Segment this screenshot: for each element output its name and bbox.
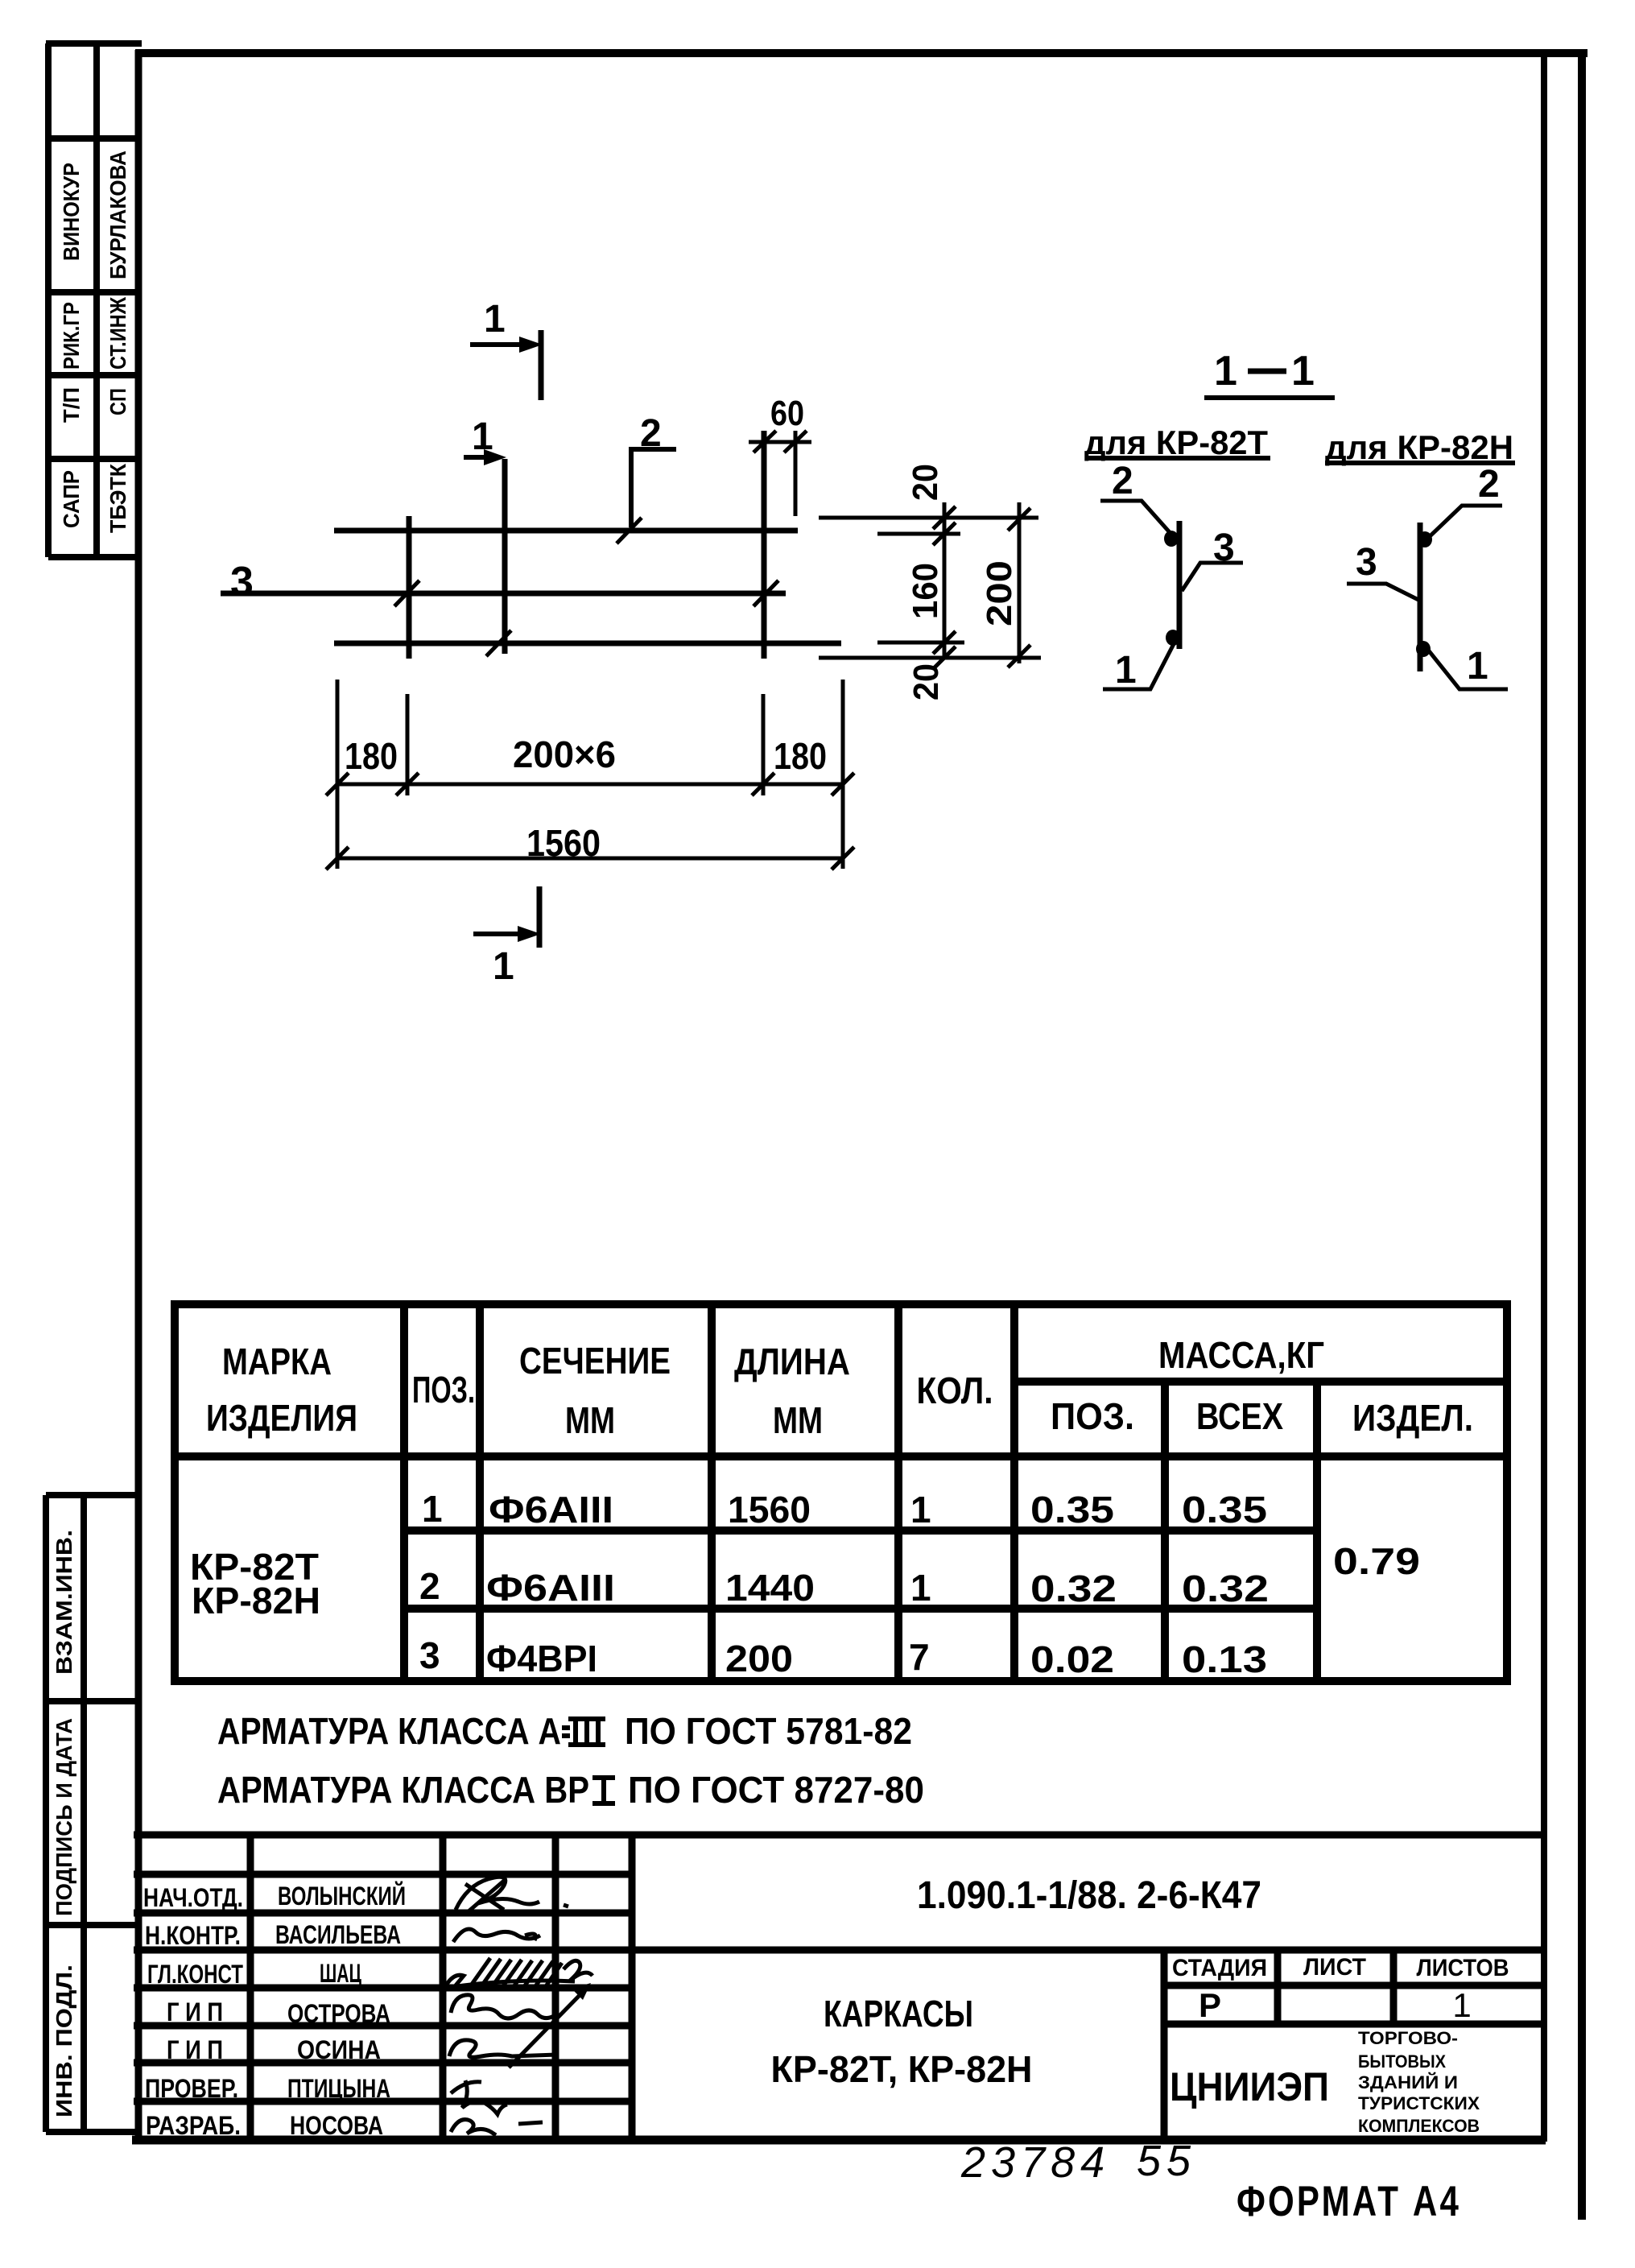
- svg-text:ОСИНА: ОСИНА: [297, 2035, 381, 2064]
- svg-text:0.79: 0.79: [1333, 1540, 1420, 1582]
- svg-text:55: 55: [1137, 2137, 1196, 2185]
- svg-text:Ф6АIII: Ф6АIII: [489, 1489, 613, 1531]
- svg-text:0.13: 0.13: [1182, 1638, 1267, 1680]
- svg-text:ПОЗ.: ПОЗ.: [412, 1369, 475, 1411]
- svg-text:20: 20: [906, 663, 946, 700]
- massa subheader line: [1014, 1378, 1507, 1386]
- signature ostrova: [451, 1995, 554, 2018]
- bar 1 (bottom longitudinal): [334, 641, 841, 647]
- svg-text:2: 2: [1478, 463, 1500, 506]
- svg-text:ММ: ММ: [565, 1399, 615, 1441]
- svg-text:ТУРИСТСКИХ: ТУРИСТСКИХ: [1358, 2093, 1480, 2113]
- svg-text:1440: 1440: [725, 1567, 815, 1609]
- title block col 2: [440, 1835, 447, 2140]
- section KP-82H: [1347, 463, 1508, 689]
- svg-text:1: 1: [493, 945, 514, 988]
- svg-text:1.090.1-1/88. 2-6-К47: 1.090.1-1/88. 2-6-К47: [917, 1874, 1261, 1917]
- svg-text:1: 1: [1452, 1986, 1471, 2024]
- svg-text:для КР-82Т: для КР-82Т: [1084, 423, 1268, 461]
- svg-text:ЛИСТОВ: ЛИСТОВ: [1417, 1955, 1509, 1981]
- col line VSEH/IZDEL: [1313, 1382, 1321, 1681]
- svg-text:ЦНИИЭП: ЦНИИЭП: [1170, 2064, 1329, 2109]
- svg-text:ПОЗ.: ПОЗ.: [1051, 1395, 1134, 1437]
- svg-text:1: 1: [484, 298, 506, 341]
- svg-text:0.35: 0.35: [1030, 1489, 1114, 1531]
- cross mark on bar 1: [486, 630, 511, 656]
- svg-text:ФОРМАТ А4: ФОРМАТ А4: [1237, 2178, 1461, 2225]
- bottom dimension chain: [337, 680, 843, 869]
- svg-text:МАССА,КГ: МАССА,КГ: [1158, 1334, 1324, 1376]
- bar 2 dot: [1418, 531, 1432, 547]
- svg-text:200×6: 200×6: [513, 733, 616, 775]
- signature volynskiy: [456, 1877, 568, 1911]
- svg-text:7: 7: [909, 1636, 930, 1678]
- roman III symbol: [562, 1719, 605, 1745]
- svg-text:АРМАТУРА КЛАССА ВР: АРМАТУРА КЛАССА ВР: [217, 1769, 589, 1811]
- signature shac: [446, 1960, 592, 1988]
- svg-text:180: 180: [345, 735, 398, 777]
- svg-text:1: 1: [910, 1567, 931, 1609]
- title block row line a: [134, 1871, 632, 1878]
- svg-text:23784: 23784: [960, 2138, 1110, 2187]
- svg-text:180: 180: [774, 735, 827, 777]
- section mark 1 bottom: [473, 886, 541, 988]
- svg-text:1: 1: [1467, 645, 1488, 688]
- stadia col a: [1274, 1950, 1282, 2024]
- svg-text:0.32: 0.32: [1182, 1568, 1269, 1609]
- svg-text:КАРКАСЫ: КАРКАСЫ: [824, 1993, 973, 2035]
- section mark 1 (cut through cage): [464, 415, 506, 465]
- svg-text:АРМАТУРА КЛАССА А: АРМАТУРА КЛАССА А: [217, 1710, 561, 1752]
- stadia row line: [1164, 1982, 1544, 1989]
- svg-text:ВАСИЛЬЕВА: ВАСИЛЬЕВА: [275, 1920, 401, 1949]
- row line 2: [404, 1605, 1317, 1613]
- title block row line g: [134, 2098, 632, 2105]
- svg-text:СТ.ИНЖ: СТ.ИНЖ: [105, 296, 130, 370]
- signatures: [446, 1877, 592, 2135]
- title block row line d: [134, 1985, 632, 1992]
- svg-text:ТБЭТК: ТБЭТК: [105, 463, 130, 533]
- note line 1: АРМАТУРА КЛАССА А-III ПО ГОСТ 5781-82: [217, 1710, 561, 1752]
- svg-text:160: 160: [906, 563, 945, 619]
- svg-text:Г И П: Г И П: [167, 1997, 223, 2026]
- svg-text:0.02: 0.02: [1030, 1638, 1114, 1680]
- cross mark on bar 3 leader left: [394, 580, 419, 606]
- signature shac hatch: [471, 1958, 562, 1989]
- dim ticks right chain: [933, 506, 956, 529]
- section title 1 - 1: [1204, 348, 1335, 398]
- cross mark on bar 2: [617, 518, 642, 543]
- svg-text:РИК.ГР: РИК.ГР: [59, 302, 84, 370]
- svg-text:ДЛИНА: ДЛИНА: [734, 1341, 850, 1382]
- svg-text:ПРОВЕР.: ПРОВЕР.: [145, 2074, 238, 2103]
- col line KOL/MASSA: [1010, 1304, 1018, 1681]
- svg-text:МАРКА: МАРКА: [222, 1341, 332, 1382]
- svg-text:ТОРГОВО-: ТОРГОВО-: [1358, 2028, 1458, 2048]
- bar 3 leader line (middle): [221, 591, 786, 597]
- section KP-82T: [1100, 460, 1243, 692]
- svg-text:ПО ГОСТ 5781-82: ПО ГОСТ 5781-82: [625, 1710, 912, 1752]
- svg-text:1: 1: [1115, 649, 1137, 692]
- svg-text:1: 1: [910, 1489, 931, 1531]
- frame top border: [135, 49, 1588, 57]
- frame bottom border (title block bottom): [132, 2136, 1546, 2145]
- svg-text:ЗДАНИЙ И: ЗДАНИЙ И: [1358, 2072, 1458, 2092]
- svg-text:ИНВ. ПОДЛ.: ИНВ. ПОДЛ.: [52, 1964, 76, 2117]
- svg-text:1: 1: [1291, 348, 1315, 395]
- cross mark on bar 3 leader right: [754, 580, 778, 606]
- svg-text:ММ: ММ: [773, 1399, 823, 1441]
- svg-text:3: 3: [1356, 541, 1377, 584]
- outer dim line 200: [1018, 502, 1022, 663]
- svg-text:1560: 1560: [526, 822, 601, 864]
- transverse bar mid / section line: [502, 459, 508, 654]
- svg-text:Ф4ВРI: Ф4ВРI: [486, 1638, 597, 1679]
- svg-text:СЕЧЕНИЕ: СЕЧЕНИЕ: [519, 1340, 671, 1382]
- svg-text:КР-82Т, КР-82Н: КР-82Т, КР-82Н: [771, 2048, 1033, 2090]
- svg-text:1: 1: [422, 1488, 443, 1530]
- svg-text:Т/П: Т/П: [59, 387, 84, 423]
- svg-text:60: 60: [770, 394, 804, 433]
- arrow through shac row: [509, 1987, 588, 2068]
- col line SECHENIE/DLINA: [708, 1304, 716, 1681]
- signature pticyna: [451, 2080, 507, 2114]
- svg-text:СП: СП: [105, 388, 130, 415]
- svg-text:САПР: САПР: [59, 470, 84, 528]
- row line 1: [404, 1526, 1317, 1535]
- stadia bottom line: [1164, 2021, 1544, 2028]
- label для КР-82Т: [1084, 423, 1270, 461]
- svg-text:НАЧ.ОТД.: НАЧ.ОТД.: [143, 1883, 243, 1912]
- svg-text:ШАЦ: ШАЦ: [320, 1959, 361, 1988]
- svg-text:3: 3: [230, 559, 254, 605]
- col line POZ/VSEH: [1161, 1382, 1169, 1681]
- col line POZ/SECHENIE: [476, 1304, 484, 1681]
- table outer border: [175, 1304, 1507, 1681]
- svg-text:Г И П: Г И П: [167, 2035, 223, 2064]
- note line 2: АРМАТУРА КЛАССА ВР-I ПО ГОСТ 8727-80: [217, 1769, 589, 1811]
- transverse bar right: [762, 431, 767, 659]
- frame right outer border: [1578, 50, 1586, 2220]
- svg-text:ПТИЦЫНА: ПТИЦЫНА: [287, 2074, 390, 2103]
- svg-text:ГЛ.КОНСТ: ГЛ.КОНСТ: [147, 1960, 243, 1989]
- svg-text:0.32: 0.32: [1030, 1568, 1117, 1609]
- svg-text:Н.КОНТР.: Н.КОНТР.: [145, 1921, 241, 1950]
- svg-text:КОМПЛЕКСОВ: КОМПЛЕКСОВ: [1358, 2116, 1480, 2136]
- title block row line b: [134, 1910, 632, 1917]
- title block row line f: [134, 2059, 632, 2067]
- svg-text:Ф6АIII: Ф6АIII: [486, 1567, 615, 1609]
- title block col 3: [552, 1835, 559, 2140]
- frame left border: [135, 50, 142, 2142]
- bottom-left stamp grid: [46, 1495, 137, 2132]
- svg-text:200: 200: [980, 560, 1019, 626]
- svg-text:1560: 1560: [728, 1489, 811, 1531]
- svg-text:ВОЛЫНСКИЙ: ВОЛЫНСКИЙ: [278, 1882, 406, 1911]
- svg-text:Р: Р: [1199, 1986, 1221, 2024]
- svg-text:ПО ГОСТ 8727-80: ПО ГОСТ 8727-80: [628, 1769, 924, 1811]
- bar 1 dot: [1416, 641, 1431, 657]
- dimension 60: [749, 394, 811, 516]
- transverse bar (vertical): [1177, 521, 1183, 649]
- svg-text:для КР-82Н: для КР-82Н: [1325, 428, 1513, 466]
- svg-text:ОСТРОВА: ОСТРОВА: [287, 1999, 390, 2028]
- signature osina: [449, 2040, 557, 2057]
- title block col 1: [247, 1835, 254, 2140]
- col line DLINA/KOL: [894, 1304, 902, 1681]
- signature vasileva: [453, 1929, 540, 1942]
- svg-text:200: 200: [725, 1638, 793, 1679]
- roman I symbol: [592, 1778, 615, 1803]
- title block row line e: [134, 2022, 632, 2030]
- label 2 leader: [631, 412, 676, 527]
- svg-text:РАЗРАБ.: РАЗРАБ.: [146, 2111, 241, 2140]
- svg-text:ЛИСТ: ЛИСТ: [1303, 1954, 1366, 1981]
- svg-text:2: 2: [1112, 460, 1133, 502]
- svg-text:ВЗАМ.ИНВ.: ВЗАМ.ИНВ.: [52, 1530, 76, 1675]
- svg-text:ИЗДЕЛИЯ: ИЗДЕЛИЯ: [206, 1397, 357, 1439]
- transverse bar left: [407, 516, 412, 659]
- svg-text:СТАДИЯ: СТАДИЯ: [1172, 1955, 1267, 1981]
- frame right inner border: [1541, 55, 1547, 2142]
- svg-text:КОЛ.: КОЛ.: [917, 1369, 993, 1411]
- bar 2 (top longitudinal): [334, 528, 798, 534]
- label для КР-82Н: [1325, 428, 1515, 466]
- svg-text:2: 2: [419, 1565, 440, 1607]
- title block top: [134, 1832, 1544, 1839]
- dim line 1560: [337, 857, 843, 861]
- section mark 1 top: [470, 298, 543, 400]
- top-left stamp grid: [46, 43, 142, 557]
- header bottom line: [175, 1452, 1507, 1460]
- bar 2 dot: [1164, 531, 1179, 547]
- col line MARKA/POZ: [400, 1304, 408, 1681]
- transverse bar (vertical): [1418, 523, 1423, 671]
- inner dim line 20/160/20: [943, 502, 947, 658]
- svg-text:БУРЛАКОВА: БУРЛАКОВА: [105, 151, 130, 279]
- svg-text:20: 20: [906, 464, 945, 501]
- svg-text:3: 3: [419, 1634, 440, 1676]
- svg-text:НОСОВА: НОСОВА: [290, 2111, 383, 2140]
- svg-text:ВИНОКУР: ВИНОКУР: [59, 163, 84, 261]
- signature nosova: [451, 2120, 543, 2135]
- svg-text:ВСЕХ: ВСЕХ: [1196, 1395, 1283, 1437]
- svg-text:БЫТОВЫХ: БЫТОВЫХ: [1358, 2051, 1446, 2072]
- right dimension chain extension lines: [819, 502, 1041, 663]
- title block col 5: [1161, 1950, 1168, 2140]
- svg-text:КР-82Н: КР-82Н: [192, 1580, 320, 1621]
- title block col 4: [629, 1835, 636, 2140]
- stadia col b: [1390, 1950, 1398, 2024]
- bar 1 dot: [1166, 630, 1180, 646]
- dim line 180/200x6/180: [337, 783, 843, 787]
- svg-text:ПОДПИСЬ И ДАТА: ПОДПИСЬ И ДАТА: [52, 1718, 76, 1916]
- svg-text:ИЗДЕЛ.: ИЗДЕЛ.: [1352, 1397, 1473, 1439]
- title block row/doc line: [134, 1947, 1544, 1954]
- svg-text:1: 1: [1214, 348, 1237, 395]
- svg-text:0.35: 0.35: [1182, 1489, 1267, 1531]
